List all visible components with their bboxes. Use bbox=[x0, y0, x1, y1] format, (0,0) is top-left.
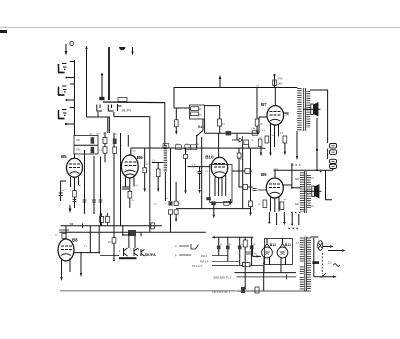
svg-text:C: C bbox=[130, 249, 132, 252]
svg-text:275v: 275v bbox=[278, 78, 284, 81]
svg-text:0.5: 0.5 bbox=[284, 199, 288, 201]
fuse component on T3 right bbox=[312, 261, 319, 264]
labels right of det bbox=[251, 128, 263, 142]
node dot top osc lead bbox=[101, 73, 103, 75]
wire B10 pins bbox=[215, 175, 226, 196]
tube B10 cathode arc bbox=[214, 172, 225, 174]
comb feeder bus with left arrow bbox=[211, 236, 253, 238]
wire B8 pins and grounds bbox=[60, 258, 70, 281]
switch S1 contact b bbox=[108, 105, 113, 112]
svg-text:S1.P4: S1.P4 bbox=[122, 109, 131, 113]
tube B7 envelope bbox=[267, 106, 284, 125]
wire bus y133 bbox=[205, 132, 259, 134]
svg-text:4.7: 4.7 bbox=[280, 132, 284, 135]
labels above comb resistors bbox=[220, 244, 256, 246]
resistor B5 cathode bbox=[73, 191, 77, 198]
resistor x1761 row2 bbox=[174, 210, 178, 214]
tube B12 filament roof bbox=[264, 244, 270, 248]
resistor B7 bias bbox=[265, 136, 269, 143]
wire jack link vertical bbox=[327, 149, 329, 160]
resistor above B8 bbox=[62, 234, 66, 239]
wire T1 left winding bottom arrow bbox=[296, 131, 298, 160]
wire antenna lead corner into band switch bbox=[87, 116, 111, 118]
svg-text:2k: 2k bbox=[132, 200, 135, 202]
svg-text:B6: B6 bbox=[137, 155, 143, 160]
wire below B6 resistor bbox=[129, 198, 131, 208]
svg-text:500: 500 bbox=[295, 203, 300, 206]
wire B7 grid left bbox=[259, 117, 267, 133]
resistor on bus148 c bbox=[191, 145, 197, 150]
component det cluster b bbox=[244, 140, 249, 144]
resistor B9 grid leak bbox=[280, 202, 284, 210]
component at B10 box bottom bbox=[206, 197, 211, 200]
svg-text:2k: 2k bbox=[241, 244, 244, 246]
ellipsis dots right bbox=[288, 227, 298, 229]
wire SKFA left link bbox=[100, 255, 119, 257]
tube B11 envelope bbox=[277, 247, 288, 258]
wire caption1 line bbox=[237, 274, 297, 279]
baseline chassis y291 bbox=[60, 290, 236, 292]
wire S41 pivot down bbox=[197, 119, 203, 148]
wire caption vertical join bbox=[263, 266, 265, 291]
tube B8 envelope bbox=[58, 239, 74, 261]
svg-text:B9: B9 bbox=[261, 172, 267, 177]
cluster box left (osc coil unit) bbox=[74, 136, 98, 155]
resistor inside osc box 1 bbox=[191, 107, 199, 111]
tube B6 envelope bbox=[121, 155, 138, 178]
wire heater link y2726 bbox=[234, 272, 296, 274]
component right of B10 box bbox=[245, 169, 250, 174]
svg-text:Tb 1 A 2 XL f: Tb 1 A 2 XL f bbox=[212, 290, 230, 294]
component cluster above B8 bbox=[59, 230, 69, 232]
svg-text:4.7: 4.7 bbox=[259, 137, 263, 139]
resistor x113 above SKFA bbox=[112, 238, 116, 244]
svg-text:307: 307 bbox=[96, 134, 100, 136]
wire left edge tick bbox=[0, 30, 7, 33]
tube B5 envelope bbox=[67, 158, 83, 177]
wire x2505 ground arrow bbox=[249, 148, 251, 216]
component x239 bbox=[237, 153, 241, 158]
wire mid horizontal from switch to coil corner bbox=[103, 101, 165, 104]
resistor on caption2 a bbox=[241, 287, 245, 293]
node arrowhead top of antenna lead bbox=[85, 46, 87, 50]
svg-text:SK/FA: SK/FA bbox=[145, 253, 156, 257]
wire column x1498 down bbox=[149, 117, 151, 233]
wire rectifier tube top leads bbox=[267, 239, 283, 244]
component near B9 left x245 bbox=[243, 184, 247, 189]
tube B7 grid dashes bbox=[270, 112, 281, 116]
wire B7 pins down bbox=[271, 124, 279, 147]
bracket left of B5 cathode bbox=[61, 181, 66, 201]
resistor B7 screen bbox=[283, 136, 287, 143]
svg-text:XT 4 4 4: XT 4 4 4 bbox=[192, 264, 202, 268]
svg-text:FM 4: FM 4 bbox=[201, 254, 207, 258]
transformer T3 winding LT3 bbox=[300, 277, 304, 290]
svg-text:0.1: 0.1 bbox=[136, 185, 140, 187]
wire anode net y170 bbox=[274, 169, 333, 179]
wire tap stub 3 bbox=[66, 123, 75, 125]
tube B9 grid dashes bbox=[269, 184, 280, 188]
tube B5 cathode arc bbox=[70, 172, 80, 174]
wire row5 line bbox=[212, 265, 264, 267]
connector jack pair 2 bbox=[330, 159, 337, 168]
tube B9 envelope bbox=[266, 178, 283, 198]
svg-text:FM 4 4: FM 4 4 bbox=[200, 260, 209, 264]
diode detector cluster bbox=[232, 136, 243, 144]
wire B11 cathode down bbox=[281, 258, 286, 273]
wire x992 drop bbox=[98, 226, 100, 253]
component HT dropper on stub bbox=[273, 74, 277, 88]
component on bus133 a bbox=[226, 131, 232, 135]
node junction dot t2 bbox=[66, 99, 68, 101]
resistor column x257 bbox=[255, 119, 259, 126]
resistor inside osc box 2 bbox=[191, 112, 199, 116]
component x113 lower bbox=[113, 147, 117, 154]
node junction dot t3 bbox=[65, 123, 67, 125]
switch S1 contact a bbox=[97, 105, 102, 112]
svg-text:47: 47 bbox=[186, 151, 189, 153]
svg-text:25: 25 bbox=[146, 164, 149, 166]
svg-text:0.5: 0.5 bbox=[311, 177, 315, 180]
wire switch outputs down bbox=[98, 112, 150, 117]
wire B12 cathode down arrow bbox=[263, 258, 270, 273]
tube B10 envelope bbox=[211, 157, 227, 177]
wire B10 grid left stub bbox=[188, 166, 210, 168]
svg-text:1k4: 1k4 bbox=[132, 150, 136, 152]
wire SKFA verticals bbox=[128, 232, 130, 248]
component x1855 bbox=[184, 154, 188, 158]
svg-text:40k: 40k bbox=[222, 124, 226, 126]
resistor on caption2 b bbox=[255, 287, 259, 293]
wire left column x94 bbox=[93, 156, 95, 212]
terminal row F bbox=[175, 254, 191, 258]
wire osc lead with dot top bbox=[101, 74, 103, 100]
wire B5 top feed bbox=[74, 154, 76, 158]
tube B11 internals bbox=[280, 252, 286, 255]
svg-text:A: A bbox=[175, 245, 177, 249]
comb resistor b bbox=[226, 246, 230, 250]
node ground arrow bbox=[131, 47, 133, 56]
wire tap bus vertical bbox=[74, 60, 76, 136]
wire B7 screen drop arrow bbox=[284, 143, 286, 155]
labels above box pair bbox=[99, 215, 109, 217]
component on bus133 b bbox=[252, 131, 258, 135]
transformer T1 secondary winding bbox=[306, 91, 310, 128]
svg-text:240: 240 bbox=[252, 128, 256, 130]
speaker SP2 bbox=[304, 184, 322, 199]
comb verticals bbox=[219, 237, 252, 265]
transformer T1 core bbox=[304, 88, 306, 131]
tube B11 filament roof bbox=[280, 244, 286, 248]
wire B10 top feed bbox=[218, 133, 220, 157]
wire thick earth lead bbox=[108, 47, 110, 100]
cluster box midline bbox=[74, 144, 98, 146]
component x158 bbox=[156, 169, 160, 177]
resistor on bus148 a bbox=[163, 144, 169, 149]
wire B5 pins bbox=[71, 177, 79, 191]
wire top faint page line bbox=[0, 27, 400, 29]
node S41 contact dot bbox=[196, 135, 198, 137]
wire B8 plate right bbox=[74, 252, 100, 254]
resistor B7 cathode bbox=[258, 139, 262, 147]
resistor below B6 bbox=[128, 192, 132, 199]
wire bottom right block bbox=[244, 237, 246, 289]
wire x113 lower bbox=[113, 243, 115, 260]
component on y2086 a bbox=[211, 201, 216, 205]
transformer T3 core bbox=[305, 237, 307, 292]
tube B12 envelope bbox=[262, 247, 273, 258]
terminal text row 3 bbox=[201, 254, 207, 258]
wire x1698 bbox=[170, 148, 172, 232]
node dark foot osc lead bbox=[99, 97, 104, 100]
svg-text:6.3: 6.3 bbox=[296, 243, 300, 245]
component box pair x100 y216 bbox=[100, 217, 104, 223]
terminal text row 5 bbox=[192, 264, 202, 268]
svg-text:1k: 1k bbox=[79, 185, 82, 187]
resistor B9 cathode bbox=[263, 200, 267, 208]
rectifier enclosure box bbox=[265, 239, 293, 265]
comb resistor d bbox=[250, 246, 254, 250]
dots under T2 bbox=[291, 212, 300, 214]
svg-text:245v: 245v bbox=[278, 83, 284, 86]
node ground arrow under cap bbox=[198, 190, 200, 194]
svg-text:B8: B8 bbox=[72, 238, 78, 243]
transistor symbol A bbox=[124, 248, 128, 256]
node antenna circle bbox=[70, 42, 74, 46]
wire coil corner drop bbox=[164, 103, 166, 147]
transformer T2 core bbox=[305, 171, 307, 213]
comb resistor c bbox=[238, 246, 242, 250]
power transformer T3 winding LT1 bbox=[300, 238, 304, 262]
connector jack pair 1 bbox=[330, 144, 337, 155]
transformer T2 primary winding bbox=[300, 173, 304, 213]
wire HT bus top bbox=[174, 87, 298, 89]
resistor on HT corner drop bbox=[175, 120, 179, 127]
svg-text:1k: 1k bbox=[166, 198, 169, 200]
terminal row A bbox=[175, 244, 199, 249]
svg-text:4u: 4u bbox=[254, 253, 257, 256]
component right of cluster lower bbox=[103, 147, 107, 153]
wire lamp to mains arrows bbox=[323, 245, 346, 251]
svg-text:312: 312 bbox=[196, 144, 200, 146]
caption line Tb 1 A 2 XL bbox=[212, 290, 230, 294]
labels above cluster bbox=[89, 134, 118, 136]
svg-text:0.5: 0.5 bbox=[311, 205, 315, 208]
node dot x94 bottom bbox=[93, 212, 95, 214]
caption line 500-525 TL bbox=[214, 276, 232, 280]
svg-text:+2: +2 bbox=[256, 84, 260, 88]
tube B5 grid dashes bbox=[69, 164, 80, 168]
wire B7 anode top feed bbox=[274, 88, 276, 106]
svg-text:7.8: 7.8 bbox=[99, 150, 103, 152]
wire left arrow into B12 bbox=[252, 245, 261, 258]
wire T1 top right corner bbox=[310, 90, 328, 143]
svg-text:B5: B5 bbox=[61, 154, 67, 159]
tube B8 grid dashes bbox=[61, 246, 72, 250]
svg-text:700: 700 bbox=[76, 149, 81, 152]
coil IF hatched x165 bbox=[164, 145, 167, 172]
wire B10 pin drop ground arrow bbox=[213, 205, 215, 218]
svg-text:240: 240 bbox=[285, 114, 290, 117]
wire long bus y2257 bbox=[61, 225, 163, 227]
svg-text:50: 50 bbox=[62, 190, 65, 192]
tube B6 grid dashes bbox=[125, 162, 137, 166]
node dot x992 bbox=[98, 252, 100, 254]
svg-text:B11: B11 bbox=[285, 243, 291, 247]
wire left column x1005 bbox=[100, 157, 102, 226]
svg-text:2k: 2k bbox=[229, 244, 232, 246]
wire cluster vertical x1283 bbox=[127, 135, 129, 147]
wire det drop bbox=[237, 133, 249, 148]
wire x144 with ground arrow bbox=[144, 148, 146, 192]
wire x158 with ground arrow bbox=[157, 163, 159, 193]
transistor symbol E bbox=[141, 249, 145, 256]
tick on bus x825 bbox=[82, 223, 84, 228]
resistor column x2197 bbox=[218, 119, 222, 126]
coil tap symbol L1c bbox=[58, 108, 75, 119]
component right of cluster upper bbox=[103, 138, 107, 144]
five feeder verticals above rectifier bbox=[268, 212, 298, 225]
svg-text:1k: 1k bbox=[220, 244, 223, 246]
speaker SP1 bbox=[303, 102, 321, 117]
svg-text:1M: 1M bbox=[260, 124, 263, 126]
wire x81 ground arrow bbox=[80, 252, 82, 277]
wire B8 top bbox=[65, 226, 67, 239]
wire row3 line bbox=[212, 255, 228, 257]
comb resistor a bbox=[217, 246, 221, 250]
svg-text:54: 54 bbox=[70, 222, 74, 226]
node HT up arrow bbox=[219, 75, 222, 88]
labels above bus148 bbox=[176, 144, 200, 146]
svg-text:4k: 4k bbox=[120, 145, 123, 147]
component x144 bbox=[143, 168, 147, 173]
wire tap stub 2 bbox=[66, 99, 75, 101]
box oscillator unit bbox=[190, 105, 205, 119]
svg-text:B7: B7 bbox=[261, 102, 267, 107]
wire T3 right vertical bbox=[313, 238, 315, 277]
svg-text:1k: 1k bbox=[253, 244, 256, 246]
wire x257 drop bbox=[256, 88, 258, 134]
svg-text:1k: 1k bbox=[199, 113, 202, 116]
wire B9 plate right to T2 bbox=[283, 163, 300, 188]
svg-text:0.1: 0.1 bbox=[262, 130, 266, 132]
mains switch dashed line bbox=[321, 253, 323, 274]
capacitor on B10 grid drop bbox=[198, 167, 202, 190]
node dot x113 bbox=[113, 260, 115, 262]
wire box pair drops bbox=[102, 213, 108, 226]
wire T3 top right corner bbox=[311, 236, 319, 238]
dark component cluster box lower bbox=[91, 147, 95, 153]
wire B6 pins bbox=[126, 178, 135, 192]
wire B6 top feed corner bbox=[130, 148, 132, 155]
switch S41 blade bbox=[197, 131, 204, 137]
wire B7 component ground arrows bbox=[260, 147, 272, 157]
left resistor bottom right block bbox=[243, 240, 247, 247]
transistor symbol C bbox=[134, 248, 138, 256]
tube B8 cathode arc bbox=[61, 254, 71, 256]
wire stub x245 bbox=[239, 186, 253, 188]
svg-text:B10: B10 bbox=[205, 155, 214, 160]
wire osc box bottom drop bbox=[204, 119, 206, 133]
node dot T2 top bbox=[320, 171, 322, 173]
wire x1855 with box and ground arrow bbox=[184, 148, 186, 194]
wire coil continues down bbox=[164, 172, 166, 201]
wire resistor drop with ground arrow bbox=[175, 108, 177, 135]
svg-text:500-525 TL f: 500-525 TL f bbox=[214, 276, 232, 280]
node dot x845 bottom bbox=[84, 212, 86, 214]
wire grid stub to coil bbox=[152, 162, 164, 164]
mains switch blade bbox=[321, 273, 326, 277]
component x113 upper bbox=[113, 139, 117, 145]
dark component cluster box upper bbox=[91, 137, 95, 143]
wire x1761 with ground arrow bbox=[175, 182, 177, 222]
svg-text:E: E bbox=[138, 249, 140, 252]
svg-text:1.6: 1.6 bbox=[192, 163, 196, 166]
svg-text:1k: 1k bbox=[258, 204, 261, 206]
wire antenna lead bbox=[86, 46, 88, 117]
tube B9 cathode arc bbox=[270, 192, 281, 194]
wire mains bottom line with arrow bbox=[314, 276, 337, 278]
wire cluster vertical x1205 bbox=[120, 133, 122, 226]
wire long bus y2322 bbox=[61, 231, 206, 233]
svg-text:700: 700 bbox=[76, 139, 81, 142]
wire bus y148 bbox=[131, 147, 265, 149]
capacitor marks on left columns bbox=[73, 200, 103, 203]
transformer T3 primary bbox=[307, 238, 311, 291]
wire B5 cathode bottom with ground arrow bbox=[69, 197, 75, 213]
tube B6 cathode arc bbox=[125, 170, 136, 175]
wire x903 drop bbox=[89, 226, 91, 253]
wire B9 grid left with cap bbox=[253, 189, 267, 191]
resistor on bus148 b bbox=[185, 145, 191, 150]
heavy bar under SKFA symbols bbox=[119, 257, 137, 259]
transformer T1 primary winding bbox=[297, 88, 301, 131]
coil tap symbol L1a bbox=[58, 62, 75, 73]
wire tap stub 1 bbox=[66, 77, 75, 79]
capacitor B5 cathode bbox=[59, 193, 63, 196]
wires of cluster verticals bbox=[105, 132, 114, 238]
node dot cap bbox=[122, 234, 124, 236]
svg-text:1k: 1k bbox=[199, 108, 202, 111]
resistor x1698 row2 bbox=[169, 210, 173, 214]
svg-text:F: F bbox=[175, 254, 177, 258]
wire x239 drop to box bbox=[238, 148, 240, 187]
svg-text:1.6: 1.6 bbox=[152, 159, 156, 162]
wire x2197 drop bbox=[205, 106, 220, 134]
wires to cap bbox=[123, 226, 141, 248]
wire T1 secondary bottom drop bbox=[316, 118, 318, 171]
svg-text:0.1: 0.1 bbox=[84, 246, 88, 248]
wire caption2 line bbox=[237, 290, 312, 292]
component box on row5 bbox=[243, 263, 251, 267]
mains sine symbol bbox=[333, 264, 339, 267]
label smudges scattered bbox=[55, 124, 300, 249]
transformer T2 secondary winding bbox=[307, 175, 311, 209]
wire B7 plate to right bbox=[284, 112, 289, 114]
pilot lamp LA bbox=[318, 241, 323, 251]
tube B10 shield box bbox=[210, 165, 232, 203]
node junction dot t1 bbox=[66, 77, 68, 79]
node dot B9 plate bbox=[291, 187, 293, 189]
tube B12 internals bbox=[264, 252, 270, 255]
svg-text:25: 25 bbox=[154, 204, 157, 206]
labels mid cluster bbox=[90, 150, 103, 152]
wire T2 top right bbox=[326, 170, 333, 200]
wire x2427 vertical bbox=[242, 148, 244, 208]
wire B9 pins down bbox=[271, 198, 280, 213]
coil tap symbol L1b bbox=[58, 84, 75, 95]
svg-text:500: 500 bbox=[295, 178, 300, 181]
